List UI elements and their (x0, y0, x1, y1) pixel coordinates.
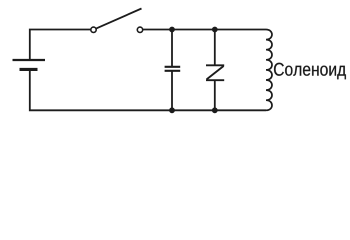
wire: bottom rail (30, 70, 266, 110)
varistor Z lead bottom (214, 80, 216, 110)
capacitor C lead bottom (171, 71, 173, 110)
switch S1 left contact (91, 27, 96, 32)
node: bottom junction at capacitor (169, 107, 175, 113)
switch S1 blade (96, 9, 142, 29)
wire: top rail right segment (switch to coil) (143, 29, 266, 31)
capacitor C lead top (171, 30, 173, 67)
label: Соленоид (274, 63, 346, 80)
inductor L1 (solenoid coil) (266, 30, 272, 111)
wire: top rail left segment (battery to switch) (30, 30, 91, 60)
node: top junction at varistor (212, 27, 218, 33)
node: top junction at capacitor (169, 27, 175, 33)
switch S1 right contact (137, 27, 142, 32)
varistor Z lead top (214, 30, 216, 66)
capacitor C plates (165, 67, 181, 71)
varistor Z symbol (206, 65, 224, 80)
battery B1 (13, 60, 46, 69)
node: bottom junction at varistor (212, 107, 218, 113)
